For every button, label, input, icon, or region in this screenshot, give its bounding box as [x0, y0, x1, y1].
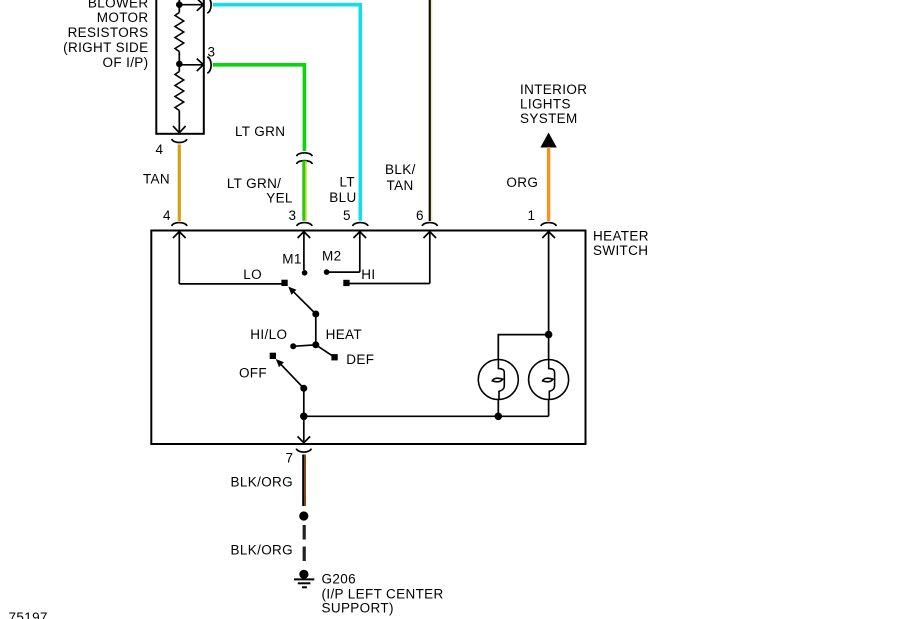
ground G206	[294, 570, 314, 588]
svg-text:SYSTEM: SYSTEM	[520, 111, 578, 126]
connector pin 4	[172, 223, 187, 226]
lamp L2	[529, 360, 569, 400]
svg-text:TAN: TAN	[143, 172, 170, 187]
svg-text:4: 4	[163, 208, 171, 223]
node junction bottom	[300, 413, 308, 421]
arrow to interior lights system	[540, 133, 556, 148]
svg-text:HI/LO: HI/LO	[250, 327, 287, 342]
connector pin 6	[422, 223, 437, 226]
wire ORG	[547, 147, 550, 221]
pin 5 arrow inside	[354, 232, 367, 273]
svg-text:7: 7	[285, 451, 293, 466]
svg-text:RESISTORS: RESISTORS	[68, 25, 149, 40]
node junction top	[176, 1, 183, 8]
connector resistor pin 4	[172, 139, 187, 143]
svg-text:HI: HI	[361, 267, 375, 282]
svg-text:YEL: YEL	[266, 191, 293, 206]
resistor R2	[175, 72, 184, 111]
svg-text:MOTOR: MOTOR	[97, 10, 149, 25]
wire	[178, 52, 180, 72]
svg-text:OF I/P): OF I/P)	[103, 55, 149, 70]
svg-text:SUPPORT): SUPPORT)	[322, 601, 394, 616]
node junction lamp bottom	[495, 413, 503, 421]
wire top feed	[178, 0, 180, 13]
connector top right	[207, 0, 211, 13]
in-line connector C200 upper half	[297, 153, 313, 156]
arrow down at box bottom	[173, 126, 186, 133]
svg-text:ORG: ORG	[506, 175, 538, 190]
contact DEF	[331, 354, 337, 360]
lamp L1	[478, 360, 518, 400]
connector pin 3	[297, 223, 312, 226]
contact M2	[324, 269, 330, 275]
svg-text:3: 3	[288, 208, 296, 223]
svg-text:OFF: OFF	[239, 365, 267, 380]
wire to bottom pin	[178, 111, 180, 133]
wire LT BLU	[213, 5, 360, 221]
wire BLK/ORG upper	[302, 455, 304, 507]
connector pin 1	[541, 223, 556, 226]
switch arm wiper to LO	[294, 292, 316, 314]
svg-text:1: 1	[528, 208, 536, 223]
svg-text:4: 4	[155, 142, 163, 157]
svg-text:LT: LT	[340, 174, 355, 189]
switch arm shaft	[315, 314, 317, 345]
wire LT GRN/YEL	[302, 161, 305, 221]
in-line connector C200 lower half	[297, 161, 313, 164]
pin 3 arrow output	[179, 64, 202, 66]
svg-text:BLU: BLU	[329, 190, 356, 205]
wire LO from pin 4	[179, 283, 281, 285]
pin 4 arrow inside	[173, 232, 186, 284]
svg-text:HEATER: HEATER	[593, 229, 649, 244]
svg-text:BLK/ORG: BLK/ORG	[231, 475, 293, 490]
svg-text:LT GRN/: LT GRN/	[227, 176, 281, 191]
heater switch box	[151, 231, 585, 445]
wire common bottom	[304, 415, 549, 417]
svg-text:BLK/ORG: BLK/ORG	[231, 543, 293, 558]
contact LO	[281, 280, 287, 286]
svg-text:INTERIOR: INTERIOR	[520, 82, 587, 97]
splice node S looks big dot	[299, 511, 308, 520]
wire BLK/TAN	[429, 0, 431, 221]
svg-text:LT GRN: LT GRN	[235, 124, 285, 139]
connector pin 5	[353, 223, 368, 226]
wire pivot to DEF	[316, 345, 332, 356]
svg-text:BLK/: BLK/	[385, 162, 416, 177]
arrow to pin HI output	[179, 4, 202, 6]
contact HI	[343, 280, 349, 286]
switch arm wiper to OFF	[281, 365, 304, 389]
svg-text:SWITCH: SWITCH	[593, 243, 648, 258]
svg-text:DEF: DEF	[346, 352, 374, 367]
svg-text:75197: 75197	[9, 610, 48, 619]
wire BLK/ORG dashed	[303, 525, 306, 561]
pin 6 arrow inside	[424, 232, 437, 284]
pivot node lower	[312, 341, 319, 348]
connector pin 3	[207, 57, 211, 73]
contact M1	[302, 270, 308, 276]
node junction mid	[176, 61, 183, 68]
svg-text:M2: M2	[322, 249, 341, 264]
svg-text:G206: G206	[322, 572, 356, 587]
svg-text:6: 6	[416, 208, 424, 223]
blower motor resistors label	[63, 0, 148, 70]
pin 7 arrow down	[298, 416, 311, 443]
svg-text:(I/P LEFT CENTER: (I/P LEFT CENTER	[322, 587, 444, 602]
svg-text:5: 5	[343, 208, 351, 223]
pin 1 arrow inside	[542, 232, 555, 360]
wire LT GRN	[213, 65, 305, 151]
wire HI/LO to pivot	[293, 345, 316, 347]
wire TAN	[178, 145, 181, 222]
lamp bottom wires	[497, 399, 499, 416]
svg-text:M1: M1	[282, 252, 301, 267]
svg-text:LIGHTS: LIGHTS	[520, 97, 571, 112]
svg-text:HEAT: HEAT	[326, 327, 362, 342]
pin 3 arrow inside	[298, 232, 311, 270]
resistor R1	[175, 13, 184, 52]
svg-text:TAN: TAN	[387, 178, 414, 193]
contact HI/LO	[290, 343, 296, 349]
pivot node OFF arm	[300, 385, 307, 392]
contact OFF	[270, 353, 276, 359]
wire HI to pin 6	[350, 283, 430, 285]
pivot node upper	[312, 311, 319, 318]
svg-text:LO: LO	[243, 267, 262, 282]
wire M2 to pin 5	[327, 271, 360, 273]
svg-text:BLOWER: BLOWER	[88, 0, 149, 10]
svg-text:(RIGHT SIDE: (RIGHT SIDE	[63, 40, 148, 55]
connector pin 7	[296, 449, 311, 452]
lamp wire branch	[545, 331, 553, 339]
wire down from OFF arm	[303, 388, 305, 416]
blower motor resistor box	[156, 0, 204, 134]
